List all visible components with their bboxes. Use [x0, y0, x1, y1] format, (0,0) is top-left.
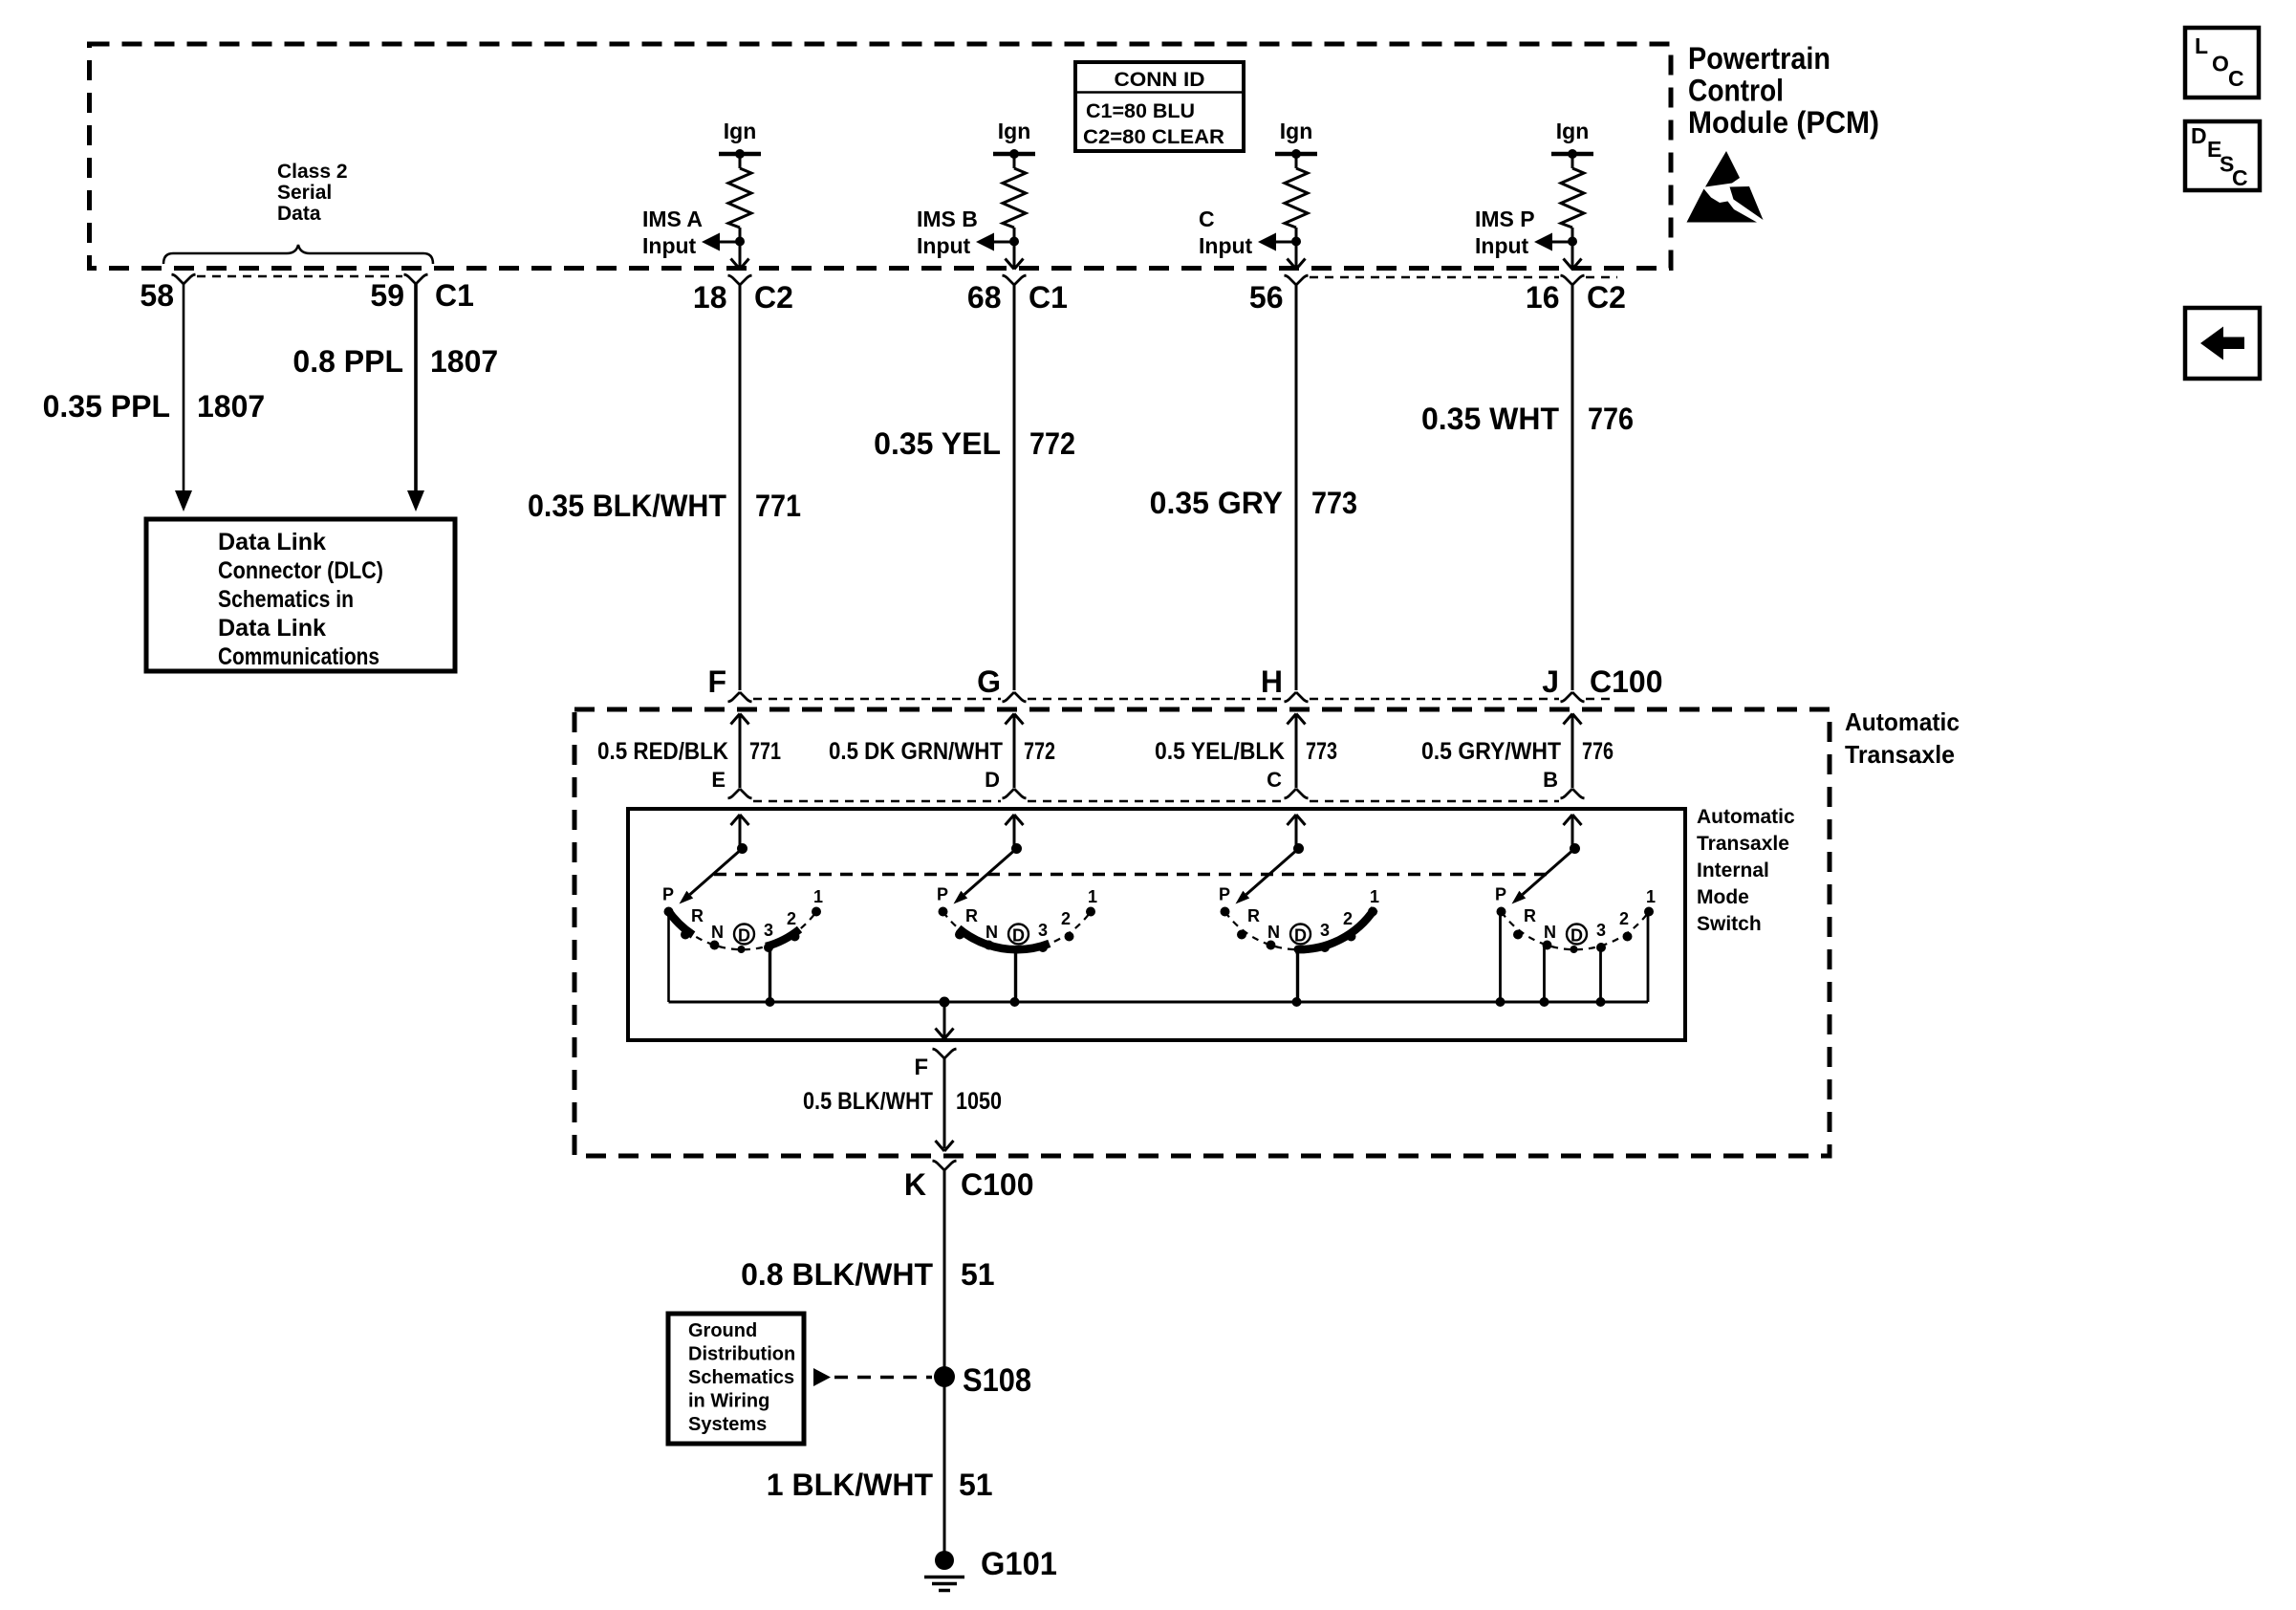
IMS B Input label: [917, 207, 978, 258]
wire 51 upper (0.8 BLK/WHT): [943, 1170, 946, 1376]
SW1 output drop wire: [769, 945, 771, 1002]
svg-text:B: B: [1543, 768, 1558, 792]
svg-text:P: P: [1219, 885, 1230, 904]
Automatic Transaxle label: [1845, 707, 1960, 769]
pin 68 label: [967, 280, 1068, 315]
switch pin D label: [985, 768, 1000, 792]
svg-text:Transaxle: Transaxle: [1845, 740, 1955, 769]
svg-text:Data Link: Data Link: [218, 615, 326, 642]
IMS P switch (SW4) contact arc (dashed): [1502, 912, 1649, 949]
svg-text:0.8 BLK/WHT: 0.8 BLK/WHT: [741, 1257, 933, 1292]
arrow into pin 68: [1006, 259, 1024, 270]
IMS B switch (SW2) contact labels: [937, 885, 1097, 943]
CONN ID entry C1: [1086, 100, 1195, 122]
svg-text:Connector (DLC): Connector (DLC): [218, 557, 383, 584]
svg-text:Transaxle: Transaxle: [1697, 833, 1789, 855]
wire 776 label: [1421, 402, 1634, 436]
svg-text:J: J: [1542, 664, 1559, 699]
wire 51 upper label: [741, 1257, 994, 1292]
svg-text:771: 771: [749, 738, 781, 765]
C Input tap wire: [1276, 241, 1296, 244]
node C input junction: [1291, 237, 1301, 247]
svg-text:0.5 DK GRN/WHT: 0.5 DK GRN/WHT: [829, 738, 1003, 765]
svg-text:Distribution: Distribution: [688, 1344, 795, 1365]
ground G101 symbol: [924, 1551, 964, 1591]
svg-text:D: D: [1012, 926, 1025, 946]
arrow into transaxle (wire 776): [1564, 714, 1582, 789]
IMS P switch (SW4) wiper arm: [1512, 849, 1575, 904]
svg-text:IMS P: IMS P: [1475, 207, 1535, 231]
switch common bus wire: [669, 1001, 1649, 1004]
SW4 contact N drop wire: [1543, 947, 1546, 1002]
connector C100 pin F symbol: [728, 692, 752, 702]
svg-text:C2=80 CLEAR: C2=80 CLEAR: [1083, 126, 1224, 148]
svg-text:3: 3: [1596, 921, 1606, 940]
pin 56 label: [1249, 280, 1284, 315]
arrow to switch box edge: [936, 1029, 954, 1039]
svg-text:772: 772: [1029, 426, 1075, 461]
IMS C switch (SW3) contacts: [1221, 907, 1378, 954]
svg-text:Ign: Ign: [1556, 119, 1590, 143]
resistor R1 (PCM pull-up, IMS A): [728, 154, 751, 242]
Ground Distribution text: [688, 1320, 795, 1435]
svg-text:771: 771: [755, 489, 801, 523]
svg-text:H: H: [1261, 664, 1283, 699]
connector C2 dashed link (pins 56-16): [1310, 276, 1617, 278]
svg-text:C: C: [2228, 66, 2244, 91]
SW1 closed segment 3-2 (thick arc): [766, 929, 799, 946]
IMS A Input label: [642, 207, 703, 258]
SW2 closed segment R-3 (thick arc): [959, 928, 1050, 949]
svg-text:0.35 WHT: 0.35 WHT: [1421, 402, 1559, 436]
svg-text:Schematics: Schematics: [688, 1367, 794, 1388]
svg-text:N: N: [711, 923, 724, 942]
svg-text:F: F: [914, 1055, 928, 1080]
DLC reference text: [218, 529, 383, 670]
svg-text:Schematics in: Schematics in: [218, 586, 354, 613]
Automatic Transaxle Internal Mode Switch label: [1697, 806, 1795, 935]
Ign feed bar and junction (column 56): [1275, 149, 1317, 159]
SW4 contact 3 drop wire: [1599, 950, 1602, 1002]
svg-text:G: G: [977, 664, 1001, 699]
svg-text:Ground: Ground: [688, 1320, 757, 1341]
IMS A switch (SW1) contacts: [664, 907, 822, 954]
CONN ID entry C2: [1083, 126, 1224, 148]
SW1 contact P drop wire: [667, 914, 670, 1002]
svg-text:Input: Input: [642, 233, 697, 258]
svg-text:N: N: [1267, 923, 1280, 942]
Data Link Connector reference box: [146, 519, 455, 671]
ground G101 label: [981, 1546, 1057, 1582]
svg-text:0.5 RED/BLK: 0.5 RED/BLK: [597, 738, 728, 765]
pin 16 connector: [1561, 275, 1585, 285]
svg-text:0.5 GRY/WHT: 0.5 GRY/WHT: [1421, 738, 1561, 765]
svg-text:1 BLK/WHT: 1 BLK/WHT: [767, 1468, 934, 1502]
wiper mechanical link (dashed): [714, 873, 1547, 877]
bus junction at SW4 N: [1540, 997, 1549, 1007]
IMS P Input arrow: [1534, 233, 1552, 251]
svg-text:773: 773: [1311, 486, 1357, 520]
svg-text:18: 18: [693, 280, 727, 315]
switch pin C connector: [1285, 789, 1309, 798]
wire 771 label: [528, 489, 801, 523]
brace (Class 2 Serial Data span): [163, 245, 433, 264]
switch pin F label: [914, 1055, 928, 1080]
splice S108: [934, 1366, 955, 1387]
node IMS P input junction: [1568, 237, 1577, 247]
connector C100 pin H symbol: [1285, 692, 1309, 702]
pin 56 connector: [1285, 275, 1309, 285]
svg-text:Internal: Internal: [1697, 859, 1769, 881]
svg-text:P: P: [662, 885, 674, 904]
wire 51 lower (1 BLK/WHT): [943, 1377, 946, 1553]
wire 51 lower label: [767, 1468, 993, 1502]
svg-text:1807: 1807: [430, 344, 498, 379]
splice S108 label: [963, 1362, 1031, 1399]
arrow into pin 16: [1564, 259, 1582, 270]
Ign feed label (column 18): [724, 119, 757, 143]
IMS C switch (SW3) wiper pivot: [1293, 843, 1304, 854]
svg-text:Module (PCM): Module (PCM): [1688, 105, 1879, 140]
reference dashed link to S108: [834, 1376, 932, 1380]
CONN ID legend box: [1075, 62, 1244, 151]
wire IMS P to pin 16: [1571, 242, 1574, 267]
SW3 output drop wire: [1296, 951, 1299, 1002]
svg-text:0.35 YEL: 0.35 YEL: [874, 426, 1001, 461]
wire 58 arrow into DLC: [175, 490, 192, 511]
svg-text:1: 1: [813, 887, 823, 906]
switch pin B connector: [1561, 789, 1585, 798]
svg-text:R: R: [1524, 906, 1536, 925]
transaxle wire 772 label: [829, 738, 1055, 765]
arrow to transaxle boundary: [936, 1141, 954, 1151]
svg-text:Automatic: Automatic: [1845, 707, 1960, 736]
Automatic Transaxle boundary (dashed box): [574, 709, 1830, 1156]
bus junction at SW2 output: [1010, 997, 1020, 1007]
transaxle wire 771 label: [597, 738, 781, 765]
svg-text:51: 51: [961, 1257, 995, 1292]
svg-text:0.5 YEL/BLK: 0.5 YEL/BLK: [1155, 738, 1285, 765]
svg-text:0.35 BLK/WHT: 0.35 BLK/WHT: [528, 489, 726, 523]
svg-text:Class 2: Class 2: [277, 161, 348, 183]
IMS P Input tap wire: [1552, 241, 1572, 244]
svg-text:Ign: Ign: [724, 119, 757, 143]
SW4 contact 1 drop wire: [1647, 915, 1650, 1002]
connector C100 pin G symbol: [1003, 692, 1027, 702]
switch pin D connector: [1003, 789, 1027, 798]
SW4 contact P drop wire: [1499, 915, 1502, 1002]
IMS A switch (SW1) wiper arm: [680, 849, 743, 904]
pin 58 label: [140, 278, 174, 313]
svg-text:D: D: [2191, 123, 2207, 148]
svg-text:56: 56: [1249, 280, 1284, 315]
Ground Distribution reference box: [668, 1314, 804, 1444]
svg-text:Control: Control: [1688, 74, 1784, 108]
svg-text:C100: C100: [1590, 664, 1663, 699]
arrow into IMS C switch (SW3): [1288, 815, 1306, 849]
svg-text:Input: Input: [1475, 233, 1529, 258]
wire 772 (0.35 YEL): [1013, 285, 1016, 690]
svg-text:G101: G101: [981, 1546, 1057, 1582]
arrow into IMS B switch (SW2): [1006, 815, 1024, 849]
node IMS B input junction: [1009, 237, 1019, 247]
pin 18 connector: [728, 275, 752, 285]
pin H label: [1261, 664, 1283, 699]
svg-text:E: E: [711, 768, 726, 792]
svg-text:C100: C100: [961, 1167, 1034, 1202]
svg-text:776: 776: [1588, 402, 1634, 436]
svg-text:F: F: [707, 664, 726, 699]
svg-text:16: 16: [1526, 280, 1560, 315]
node IMS A input junction: [735, 237, 745, 247]
wire 772 label: [874, 426, 1075, 461]
pin K label: [904, 1167, 1034, 1202]
svg-text:Data: Data: [277, 203, 321, 225]
output wire to pin F: [943, 1002, 946, 1036]
PCM label: [1688, 41, 1879, 140]
transaxle wire 776 label: [1421, 738, 1614, 765]
Ign feed label (column 16): [1556, 119, 1590, 143]
svg-text:in Wiring: in Wiring: [688, 1391, 769, 1412]
svg-text:Mode: Mode: [1697, 886, 1749, 908]
arrow into IMS A switch (SW1): [731, 815, 749, 849]
svg-text:1: 1: [1646, 887, 1656, 906]
svg-text:2: 2: [1619, 909, 1629, 928]
IMS C switch (SW3) wiper arm: [1236, 849, 1299, 904]
svg-text:L: L: [2195, 33, 2208, 58]
svg-text:D: D: [738, 926, 750, 946]
svg-text:C: C: [1199, 207, 1215, 231]
svg-text:776: 776: [1582, 738, 1614, 765]
bus junction at SW3 output: [1292, 997, 1302, 1007]
svg-text:0.35 PPL: 0.35 PPL: [43, 389, 170, 424]
switch pin E connector: [728, 789, 752, 798]
svg-text:S108: S108: [963, 1362, 1031, 1399]
svg-text:Ign: Ign: [1280, 119, 1313, 143]
svg-text:C1: C1: [1029, 280, 1068, 315]
svg-text:Data Link: Data Link: [218, 529, 326, 555]
IMS A Input arrow: [702, 233, 720, 251]
pin G label: [977, 664, 1001, 699]
switch pin B label: [1543, 768, 1558, 792]
svg-text:C1: C1: [435, 278, 474, 313]
SW2 output drop wire: [1014, 951, 1017, 1002]
wire IMS B to pin 68: [1013, 242, 1016, 267]
svg-text:Serial: Serial: [277, 182, 332, 204]
wire 1050 (0.5 BLK/WHT): [943, 1058, 946, 1148]
ESD sensitivity symbol: [1687, 151, 1764, 223]
Ign feed bar and junction (column 16): [1551, 149, 1593, 159]
IMS B Input tap wire: [994, 241, 1014, 244]
svg-text:C2: C2: [1587, 280, 1626, 315]
svg-text:D: D: [1570, 926, 1583, 946]
IMS P Input label: [1475, 207, 1535, 258]
Ign feed label (column 68): [998, 119, 1031, 143]
SW1 closed segment P-R (thick arc): [667, 909, 693, 935]
wire 773 label: [1150, 486, 1357, 520]
bus junction at SW4 P: [1496, 997, 1505, 1007]
svg-text:Input: Input: [917, 233, 971, 258]
IMS P switch (SW4) contacts: [1497, 907, 1655, 954]
svg-text:1807: 1807: [197, 389, 265, 424]
arrow into transaxle (wire 772): [1006, 714, 1024, 789]
reference pointer arrow: [813, 1368, 831, 1386]
switch pin C label: [1267, 768, 1282, 792]
switch pin F connector: [933, 1049, 957, 1058]
connector C100 pin J symbol: [1561, 692, 1585, 702]
IMS A Input tap wire: [720, 241, 740, 244]
svg-text:C: C: [2232, 165, 2248, 190]
pin J label: [1542, 664, 1559, 699]
svg-text:P: P: [937, 885, 948, 904]
svg-text:2: 2: [1061, 909, 1071, 928]
resistor R4 (PCM pull-up, IMS P): [1561, 154, 1584, 242]
svg-text:3: 3: [764, 921, 773, 940]
svg-text:R: R: [691, 906, 704, 925]
IMS B switch (SW2) contacts: [939, 907, 1096, 954]
C Input label: [1199, 207, 1253, 258]
svg-text:D: D: [985, 768, 1000, 792]
IMS B switch (SW2) D position (circled): [1008, 925, 1029, 946]
pin 18 label: [693, 280, 793, 315]
arrow into transaxle (wire 771): [731, 714, 749, 789]
Ign feed bar and junction (column 68): [993, 149, 1035, 159]
svg-text:0.5 BLK/WHT: 0.5 BLK/WHT: [803, 1088, 933, 1115]
pin 59 label: [370, 278, 474, 313]
svg-text:R: R: [1247, 906, 1260, 925]
IMS B Input arrow: [976, 233, 994, 251]
CONN ID title: [1115, 69, 1205, 91]
svg-text:C1=80 BLU: C1=80 BLU: [1086, 100, 1195, 122]
wire 59 arrow into DLC: [407, 490, 424, 511]
svg-text:1: 1: [1370, 887, 1379, 906]
svg-text:Ign: Ign: [998, 119, 1031, 143]
node 59 connector (C1 cavity 59): [404, 274, 428, 284]
wire 58 (0.35 PPL 1807): [183, 284, 185, 491]
svg-text:C2: C2: [754, 280, 793, 315]
PCM module boundary (dashed box): [90, 44, 1672, 269]
svg-text:59: 59: [370, 278, 404, 313]
bus junction at SW4 3: [1596, 997, 1606, 1007]
arrow into transaxle (wire 773): [1288, 714, 1306, 789]
IMS P switch (SW4) wiper pivot: [1570, 843, 1580, 854]
connector C100 dashed link: [753, 698, 1615, 700]
svg-text:3: 3: [1038, 921, 1048, 940]
wire IMS A to pin 18: [739, 242, 742, 267]
transaxle wire 773 label: [1155, 738, 1337, 765]
svg-text:Automatic: Automatic: [1697, 806, 1795, 828]
svg-text:D: D: [1294, 926, 1307, 946]
svg-text:C: C: [1267, 768, 1282, 792]
connector C100 pin K symbol: [933, 1161, 957, 1170]
wire 59 (0.8 PPL 1807): [414, 284, 418, 491]
svg-text:N: N: [986, 923, 998, 942]
svg-text:0.35 GRY: 0.35 GRY: [1150, 486, 1283, 520]
pin F label: [707, 664, 726, 699]
IMS C switch (SW3) D position (circled): [1290, 925, 1310, 946]
IMS B switch (SW2) contact arc (dashed): [943, 912, 1091, 949]
svg-text:2: 2: [787, 909, 796, 928]
svg-text:2: 2: [1343, 909, 1353, 928]
back-arrow reference box: [2185, 308, 2260, 379]
IMS A switch (SW1) wiper pivot: [737, 843, 747, 854]
IMS C switch (SW3) contact arc (dashed): [1225, 912, 1373, 949]
IMS B switch (SW2) wiper pivot: [1011, 843, 1022, 854]
DESC reference box: [2185, 121, 2260, 190]
wire 1050 label: [803, 1088, 1002, 1115]
IMS P switch (SW4) D position (circled): [1567, 925, 1587, 946]
svg-text:68: 68: [967, 280, 1002, 315]
connector C1 dashed link (pins 58-59): [197, 275, 402, 277]
IMS B switch (SW2) wiper arm: [954, 849, 1017, 904]
svg-text:0.8 PPL: 0.8 PPL: [292, 344, 403, 379]
resistor R3 (PCM pull-up, C): [1285, 154, 1308, 242]
svg-text:IMS A: IMS A: [642, 207, 703, 231]
resistor R2 (PCM pull-up, IMS B): [1003, 154, 1026, 242]
IMS P switch (SW4) contact labels: [1495, 885, 1656, 943]
svg-text:772: 772: [1024, 738, 1055, 765]
wire 776 (0.35 WHT): [1571, 285, 1574, 690]
svg-text:CONN ID: CONN ID: [1115, 69, 1205, 91]
wire C to pin 56: [1295, 242, 1298, 267]
svg-text:1: 1: [1088, 887, 1097, 906]
IMS A switch (SW1) D position (circled): [734, 925, 754, 946]
bus junction at SW1 output: [766, 997, 775, 1007]
IMS A switch (SW1) contact labels: [662, 885, 823, 943]
svg-text:N: N: [1544, 923, 1556, 942]
switch pin E label: [711, 768, 726, 792]
bus junction at output F: [940, 997, 950, 1008]
svg-text:3: 3: [1320, 921, 1330, 940]
IMS C switch (SW3) contact labels: [1219, 885, 1379, 943]
svg-text:R: R: [965, 906, 978, 925]
connector C100 label: [1590, 664, 1663, 699]
svg-text:Powertrain: Powertrain: [1688, 41, 1830, 76]
svg-text:Communications: Communications: [218, 643, 379, 670]
arrow into pin 18: [731, 259, 749, 270]
arrow into IMS P switch (SW4): [1564, 815, 1582, 849]
wire 771 (0.35 BLK/WHT): [739, 285, 742, 690]
arrow into pin 56: [1288, 259, 1306, 270]
svg-text:Switch: Switch: [1697, 913, 1762, 935]
svg-text:58: 58: [140, 278, 174, 313]
SW3 closed segment D-1 (thick arc): [1295, 909, 1375, 950]
wire 58 label: [43, 389, 266, 424]
pin 68 connector: [1003, 275, 1027, 285]
Ign feed bar and junction (column 18): [719, 149, 761, 159]
svg-text:773: 773: [1306, 738, 1337, 765]
IMS A switch (SW1) contact arc (dashed): [669, 912, 816, 949]
Internal Mode Switch box: [628, 809, 1685, 1040]
LOC reference box: [2185, 28, 2259, 98]
wire 773 (0.35 GRY): [1295, 285, 1298, 690]
svg-text:IMS B: IMS B: [917, 207, 978, 231]
pin 16 label: [1526, 280, 1626, 315]
svg-text:Systems: Systems: [688, 1414, 767, 1435]
C Input arrow: [1258, 233, 1276, 251]
svg-text:P: P: [1495, 885, 1506, 904]
node 58 connector (C1 cavity 58): [172, 274, 196, 284]
Ign feed label (column 56): [1280, 119, 1313, 143]
svg-text:K: K: [904, 1167, 926, 1202]
svg-text:Input: Input: [1199, 233, 1253, 258]
Class 2 Serial Data label: [277, 161, 348, 225]
svg-text:51: 51: [959, 1468, 993, 1502]
svg-text:1050: 1050: [956, 1088, 1002, 1115]
switch connector dashed link (E-D-C-B): [753, 800, 1559, 802]
wire 59 label: [292, 344, 498, 379]
svg-text:O: O: [2212, 52, 2229, 76]
